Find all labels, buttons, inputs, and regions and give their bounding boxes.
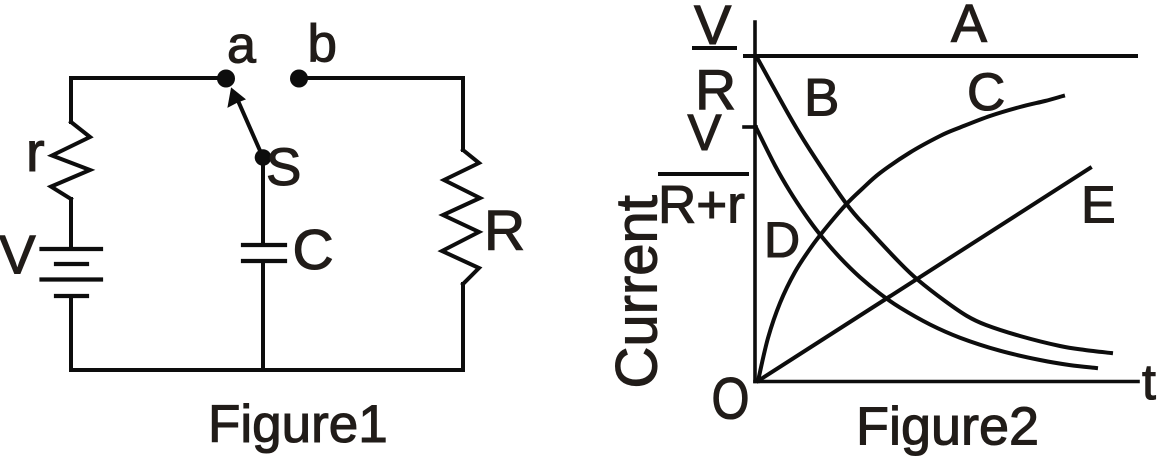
- svg-text:E: E: [1081, 177, 1116, 235]
- svg-text:A: A: [951, 0, 987, 54]
- curve A horizontal line: [745, 54, 1136, 58]
- svg-text:V: V: [688, 104, 722, 161]
- curve B: [757, 58, 1111, 354]
- svg-text:V: V: [0, 224, 36, 286]
- fraction V/(R+r) bar: [658, 172, 749, 176]
- y axis: [753, 22, 757, 382]
- wire node b to top right corner: [299, 76, 463, 80]
- wire battery to bottom left corner: [69, 296, 73, 370]
- wire resistor R to bottom right corner: [461, 284, 465, 370]
- node S dot: [255, 149, 272, 166]
- svg-text:R: R: [484, 199, 525, 263]
- node a dot: [217, 70, 235, 88]
- wire switch S to capacitor: [261, 158, 265, 243]
- svg-text:Figure1: Figure1: [208, 395, 388, 454]
- svg-text:r: r: [26, 120, 45, 183]
- curve C: [758, 96, 1063, 381]
- wire left vertical top: [69, 78, 73, 122]
- svg-text:R+r: R+r: [658, 176, 745, 235]
- battery V plates: [42, 249, 102, 296]
- wire top left horizontal: [71, 76, 226, 80]
- svg-text:C: C: [293, 218, 334, 282]
- svg-text:t: t: [1142, 354, 1156, 410]
- wire resistor r to battery: [69, 199, 73, 249]
- x axis: [755, 380, 1138, 384]
- svg-text:a: a: [227, 17, 256, 75]
- wire right vertical top: [461, 78, 465, 150]
- tick V/(R+r): [744, 125, 756, 129]
- curve D: [756, 128, 1096, 369]
- node b dot: [290, 70, 308, 88]
- svg-text:C: C: [967, 63, 1005, 122]
- resistor r: [51, 122, 90, 199]
- svg-text:S: S: [266, 138, 301, 197]
- fraction V/R bar: [692, 46, 737, 50]
- svg-text:B: B: [804, 69, 839, 128]
- capacitor C plates: [243, 245, 285, 261]
- svg-text:b: b: [308, 15, 337, 74]
- wire capacitor to bottom: [261, 261, 265, 370]
- svg-text:Current: Current: [605, 195, 670, 388]
- svg-text:Figure2: Figure2: [856, 397, 1039, 457]
- resistor R: [442, 150, 480, 284]
- switch arrowhead: [228, 89, 245, 107]
- switch arm: [239, 103, 263, 158]
- svg-text:O: O: [712, 367, 750, 432]
- wire bottom horizontal: [71, 368, 463, 372]
- curve E straight line: [758, 168, 1090, 381]
- svg-text:D: D: [764, 212, 800, 268]
